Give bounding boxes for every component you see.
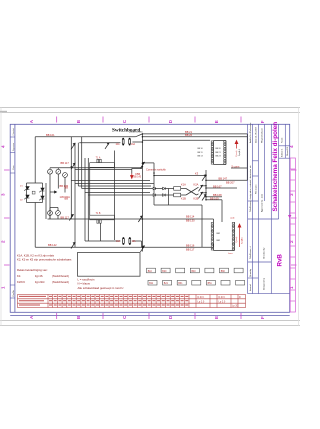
right revision boxes (290, 158, 295, 312)
svg-text:Title/Names, designation, mate: Title/Names, designation, material, dime… (249, 164, 252, 212)
wire to fuses (79, 142, 120, 144)
svg-text:K2A: K2A (194, 182, 199, 186)
terminal blocks rows (147, 268, 245, 285)
svg-text:B20: B20 (162, 271, 167, 273)
svg-text:B10: B10 (148, 271, 153, 273)
wire row y169 (75, 168, 132, 170)
svg-text:BB 114: BB 114 (186, 214, 195, 218)
switch S5 (138, 216, 142, 222)
svg-text:Title/Name, d: Title/Name, d (249, 246, 252, 259)
svg-text:BB: BB (65, 185, 69, 189)
wire drop x222 (221, 200, 223, 222)
svg-text:Signature: Signature (12, 143, 15, 151)
wire 5conn row (231, 167, 247, 169)
svg-text:2: 2 (1, 240, 6, 243)
thyristor V2 (39, 188, 44, 192)
connector loco plug left (211, 222, 213, 251)
title block cell texts (249, 122, 289, 291)
notes red text (17, 253, 72, 284)
svg-text:K2B: K2B (194, 197, 199, 201)
wire top bus BB21 (142, 133, 247, 135)
svg-text:Edition 1: Edition 1 (281, 148, 284, 157)
wire BB142-BB117 row (35, 246, 213, 248)
svg-text:1: 1 (1, 286, 6, 289)
svg-text:Wt-prentenkast: Wt-prentenkast (261, 128, 264, 143)
wire bus vertical 6 (87, 158, 89, 195)
connector loco plug right (232, 222, 234, 251)
svg-text:K5B: K5B (135, 172, 140, 176)
page right edge (298, 108, 300, 326)
wire BB168 row (206, 196, 222, 198)
svg-text:Itemref: Itemref (249, 284, 252, 291)
connector plug top right (224, 141, 226, 165)
wire bus h4 (82, 188, 153, 190)
indicator lamp P4 (48, 211, 53, 216)
wire BB167 row (206, 187, 237, 189)
wire plug top link (214, 140, 227, 142)
svg-text:BB 10: BB 10 (198, 148, 203, 150)
bridge center block (32, 191, 35, 194)
relay contact K1 (199, 185, 203, 191)
wire vert to BB114 row (70, 181, 72, 220)
svg-text:Quantity: Quantity (249, 268, 252, 277)
svg-text:Spo(A-I): Spo(A-I) (238, 149, 241, 156)
svg-text:L = rood/bruin: L = rood/bruin (78, 278, 95, 282)
connector plug top left (211, 141, 213, 165)
svg-text:B40: B40 (192, 271, 197, 273)
svg-text:B60: B60 (221, 271, 226, 273)
switch S1 (105, 143, 109, 149)
svg-text:File name: File name (256, 184, 258, 194)
svg-text:Artikle No./Reference: Artikle No./Reference (249, 122, 252, 143)
legend box (78, 253, 141, 277)
svg-text:Date 21-06-2007: Date 21-06-2007 (255, 126, 258, 143)
svg-text:BB 142: BB 142 (48, 243, 57, 247)
svg-text:E: E (214, 120, 219, 123)
diode D1 (153, 187, 156, 190)
wire bus vertical 5 (84, 158, 86, 193)
wire lower fuse row out (132, 240, 141, 242)
switch S3 (71, 163, 75, 169)
svg-text:B21: B21 (164, 283, 169, 285)
page top edge line 2 (0, 112, 300, 114)
wire lamp drop 2 (57, 174, 59, 188)
svg-text:Checked: Checked (13, 128, 15, 135)
svg-text:BB: BB (65, 197, 69, 201)
wire drop x202 (201, 205, 203, 247)
wire comb feed (142, 139, 210, 141)
svg-text:E: E (214, 316, 219, 319)
svg-text:(Switchboard): (Switchboard) (52, 274, 69, 278)
indicator lamp P1 (48, 169, 53, 174)
svg-text:D.R.V.: D.R.V. (219, 296, 226, 299)
switch S2 (71, 143, 75, 149)
cable arrow top (235, 141, 238, 149)
wire bus vertical 2 (74, 143, 76, 184)
relay contact K4 (202, 195, 206, 201)
svg-text:K1:: K1: (17, 274, 21, 278)
svg-text:BB 20: BB 20 (216, 148, 221, 150)
wire lamp drop 3 (64, 177, 66, 192)
wire bus vertical 4 (81, 137, 83, 189)
wire main vertical (141, 134, 143, 252)
svg-text:16A: 16A (131, 143, 136, 146)
switch S6 (140, 246, 144, 252)
wire comb bottom link (214, 250, 235, 252)
svg-text:T1 A: T1 A (96, 157, 101, 160)
diode D2 (163, 187, 166, 190)
wire T1B pin drop (99, 223, 101, 241)
svg-text:BB 117: BB 117 (61, 161, 70, 165)
wire vert to BB142 row (74, 184, 76, 248)
svg-text:BB2: BB2 (217, 233, 221, 235)
svg-text:BB 116: BB 116 (186, 243, 195, 247)
page bottom edge line 1 (0, 320, 300, 322)
svg-text:BB 26: BB 26 (185, 133, 193, 137)
fuse F2 16A (129, 139, 131, 144)
wire jog down (131, 169, 133, 174)
svg-text:BB 130: BB 130 (186, 219, 195, 223)
wire K3 row (154, 175, 206, 177)
transformer T1A body (90, 163, 115, 168)
svg-text:BB 147: BB 147 (219, 177, 228, 181)
svg-text:1 (rood): 1 (rood) (236, 150, 238, 157)
relay coil K2 (174, 193, 181, 197)
wire bridge bottom (27, 202, 43, 204)
wire contact out 2 (203, 192, 207, 194)
svg-text:Approved by - date: Approved by - date (261, 193, 264, 212)
switch S8 (71, 243, 75, 249)
wire bridge to lamp row (45, 183, 47, 219)
svg-text:K1B: K1B (181, 197, 186, 201)
svg-text:16A: 16A (132, 240, 137, 243)
svg-text:ligt 22Ω: ligt 22Ω (35, 280, 44, 284)
svg-text:N = blauw: N = blauw (78, 282, 90, 286)
wire vert x88 down (87, 195, 89, 241)
cable arrow bottom (238, 224, 241, 247)
thyristor V1 (24, 187, 29, 191)
svg-text:K2/K3:: K2/K3: (17, 280, 25, 284)
svg-text:Lp 20: Lp 20 (232, 304, 239, 307)
svg-text:BB 21: BB 21 (216, 152, 221, 154)
svg-text:T1 B: T1 B (96, 213, 101, 215)
wire cross 2b (197, 194, 199, 195)
wire bus h2 (75, 183, 154, 185)
diode D3 (153, 194, 156, 197)
wire hook down to plug (213, 219, 215, 222)
svg-text:(2xBB25/4/NB5): (2xBB25/4/NB5) (129, 131, 143, 133)
fuse F1 10A (122, 139, 124, 144)
svg-text:K3: K3 (195, 171, 199, 175)
page left edge (0, 108, 2, 326)
svg-text:BB 101: BB 101 (46, 133, 55, 137)
svg-text:ligt 4S: ligt 4S (35, 274, 43, 278)
frame revision strip dividers (left) (10, 137, 15, 298)
wire drop x168 (168, 189, 170, 206)
svg-text:RvB: RvB (277, 254, 284, 267)
terminal labels columns (198, 148, 221, 158)
wire lamp drop 1 (49, 174, 51, 219)
svg-text:10A: 10A (116, 240, 121, 243)
page bottom edge line 2 (0, 325, 300, 327)
wire relay vertical (205, 170, 207, 200)
wire right drop (246, 134, 248, 181)
svg-text:D.R.V.: D.R.V. (198, 296, 205, 299)
wire branch right (142, 162, 154, 164)
frame coordinate letters top and bottom (29, 119, 265, 319)
indicator lamp P3 (63, 173, 68, 178)
svg-text:BB 145: BB 145 (134, 177, 142, 179)
wire cross 2 (186, 189, 197, 196)
wire bus vertical 1 (70, 137, 72, 181)
svg-text:BB 207: BB 207 (226, 180, 235, 184)
svg-text:B31: B31 (178, 283, 183, 285)
relay contact K3 (202, 175, 206, 181)
wire BB114 row (48, 218, 214, 220)
thyristor V3 (24, 195, 29, 199)
wire bus step (136, 134, 143, 137)
transformer T1B body (90, 215, 115, 220)
wire row y168 (50, 167, 142, 169)
frame coordinate numbers left/right (1, 145, 295, 289)
page top edge line 1 (0, 107, 300, 109)
svg-text:F: F (260, 120, 265, 123)
wire bridge top (27, 182, 43, 184)
red wire labels (46, 130, 240, 252)
relay coil K1 (174, 187, 181, 191)
relay contact K2 (199, 192, 203, 198)
svg-text:BB 13: BB 13 (198, 156, 203, 158)
svg-text:Alle schakeldraad gestreept in: Alle schakeldraad gestreept in rood U (78, 286, 124, 290)
wire contact out 1 (203, 185, 207, 187)
svg-text:BB 117: BB 117 (186, 248, 195, 252)
arrow to bus (50, 191, 57, 193)
wire vert x85 down (84, 193, 86, 242)
wire jog left (132, 168, 143, 170)
corner print artifact (0, 111, 7, 112)
switch S7 (69, 215, 73, 221)
svg-text:(Switchboard): (Switchboard) (52, 280, 69, 284)
diode D4 (163, 194, 166, 197)
wire BB169 row (206, 199, 222, 201)
parts table text marks (19, 296, 188, 305)
wire lower fuse row in (85, 240, 120, 242)
switch S4 (140, 162, 144, 168)
svg-text:Lp 2.0: Lp 2.0 (198, 300, 205, 303)
wire left drop (34, 137, 36, 183)
transformer box right long (114, 151, 116, 241)
svg-text:K2, K3 en K5 zijn pneumatische: K2, K3 en K5 zijn pneumatische schakelaa… (17, 257, 72, 261)
wire vert x154 (153, 163, 155, 205)
wire bus vertical 3 (77, 143, 79, 186)
svg-text:Schakelschema Felix di-polen: Schakelschema Felix di-polen (272, 122, 279, 212)
svg-text:Date: Date (12, 166, 15, 170)
wire from fuses (132, 141, 142, 143)
right edge magenta arrow (288, 215, 291, 218)
svg-text:Comm in switchb: Comm in switchb (146, 167, 166, 171)
fuse F4 16A (129, 239, 131, 244)
wire bus h5 (85, 192, 150, 194)
frame outer border (10, 124, 290, 315)
svg-text:4: 4 (289, 145, 294, 148)
svg-text:3: 3 (1, 193, 6, 196)
svg-text:BB2: BB2 (217, 240, 221, 242)
terminal block red texts (148, 271, 226, 285)
svg-text:B51: B51 (208, 283, 213, 285)
red arrow BB145 (131, 174, 134, 179)
svg-text:BB 23: BB 23 (216, 156, 221, 158)
wire bus h3 (78, 185, 151, 187)
svg-text:BB 11: BB 11 (198, 152, 203, 154)
svg-text:Checked by: Checked by (264, 247, 266, 259)
svg-text:Lp 2.0: Lp 2.0 (219, 300, 226, 303)
wire plug bottom link (214, 164, 227, 166)
indicator lamp P5 (56, 211, 61, 216)
svg-text:Scale: Scale (282, 137, 284, 143)
wire bus BB26 right (142, 136, 247, 138)
wire mid-bottom (154, 204, 202, 206)
wire bus h1 (71, 180, 150, 182)
svg-text:Sheet 1/1: Sheet 1/1 (286, 146, 289, 156)
svg-text:F: F (260, 316, 265, 319)
wire cross 1b (197, 187, 199, 188)
svg-text:1 (rood): 1 (rood) (236, 236, 238, 243)
svg-text:BB 169: BB 169 (210, 196, 219, 200)
wire cross 1 (186, 189, 197, 196)
svg-text:BB 167: BB 167 (213, 185, 222, 189)
svg-text:10A: 10A (116, 143, 121, 146)
wire hook up at plug (213, 244, 215, 247)
svg-text:BB 117: BB 117 (61, 215, 70, 219)
thyristor V4 (39, 196, 44, 200)
wire BB147 row (206, 179, 247, 181)
wire bridge out drop (34, 203, 36, 248)
svg-text:K1A: K1A (181, 182, 186, 186)
wire bus BB26 long (35, 136, 135, 138)
svg-text:K1A, K1B, K2 en K3 zijn relais: K1A, K1B, K2 en K3 zijn relais (17, 253, 55, 257)
parts table (18, 295, 246, 308)
fuse F3 10A (123, 239, 125, 244)
svg-text:4: 4 (1, 145, 6, 148)
wire bridge right (42, 183, 44, 203)
transformer box left (89, 167, 91, 215)
legend red text (78, 278, 124, 291)
wire bus h6 (88, 194, 153, 196)
svg-text:5 conn: 5 conn (232, 165, 240, 169)
svg-text:D: D (239, 296, 241, 299)
svg-text:Spo(A-I): Spo(A-I) (241, 237, 244, 244)
wire corner down (141, 241, 143, 247)
svg-text:Designed by: Designed by (264, 277, 266, 290)
svg-text:Relais bekrachtiging van:: Relais bekrachtiging van: (17, 268, 48, 272)
indicator lamp P2 (56, 169, 61, 174)
title block lines (248, 124, 290, 293)
svg-text:Rev/No: Rev/No (13, 290, 15, 296)
wire bridge left (26, 183, 28, 203)
